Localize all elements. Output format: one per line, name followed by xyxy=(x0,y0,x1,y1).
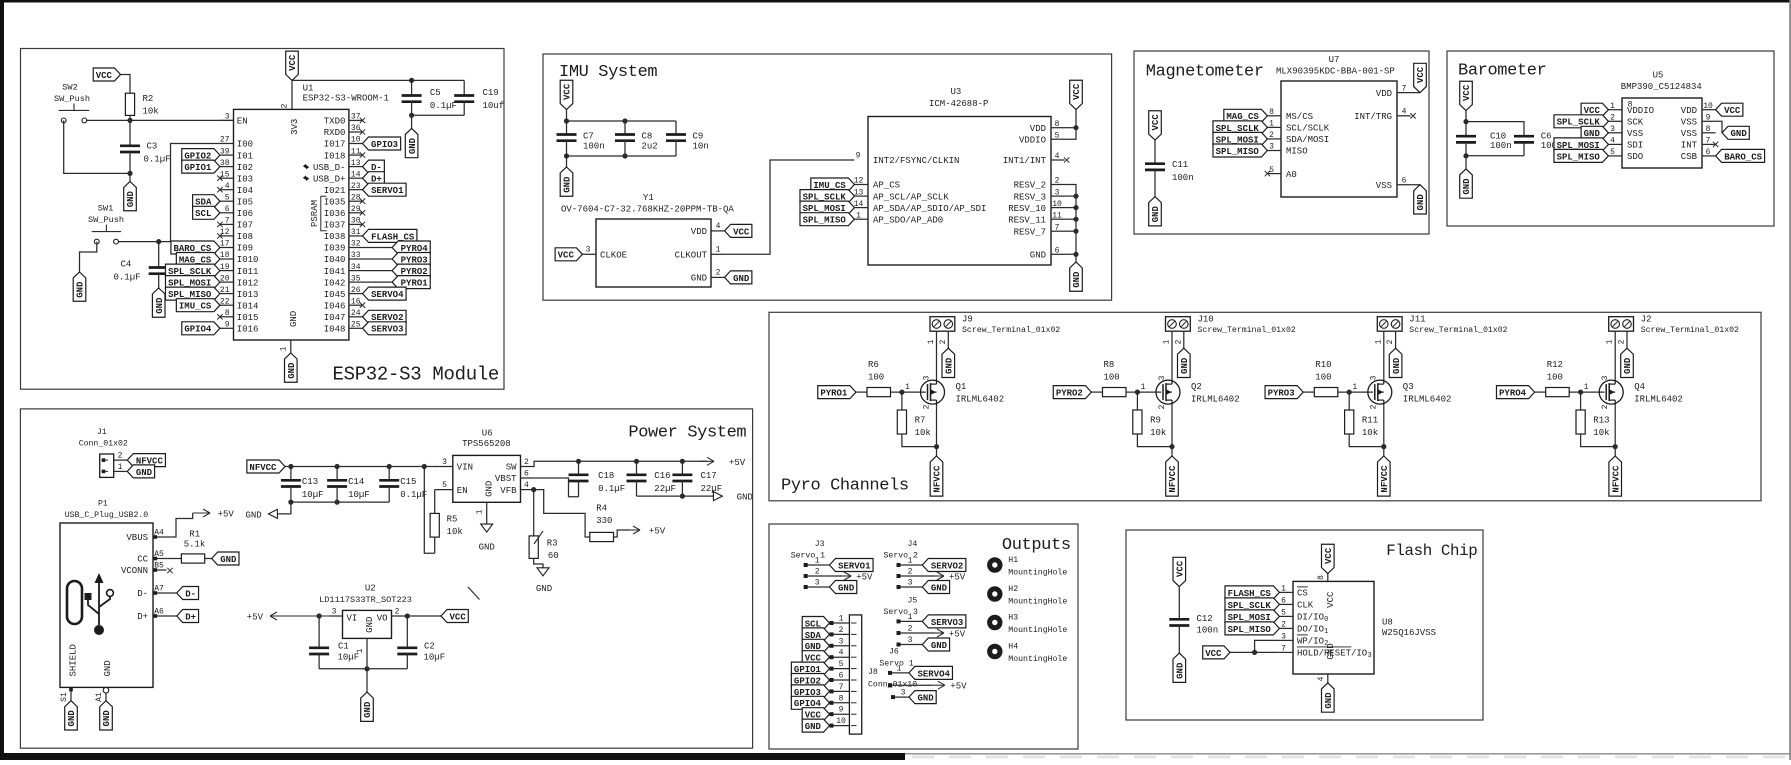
svg-text:16: 16 xyxy=(351,297,361,306)
wire R13 to source xyxy=(1581,434,1616,447)
svg-text:1: 1 xyxy=(356,648,365,653)
svg-text:C12: C12 xyxy=(1197,614,1213,624)
power flag VCC above U8 xyxy=(1322,544,1335,573)
svg-text:BMP390_C5124834: BMP390_C5124834 xyxy=(1621,82,1702,92)
svg-text:U5: U5 xyxy=(1653,71,1664,81)
svg-text:VSS: VSS xyxy=(1627,129,1643,139)
svg-text:INT2/FSYNC/CLKIN: INT2/FSYNC/CLKIN xyxy=(873,156,959,166)
IC U7 body xyxy=(1281,81,1397,197)
wire R11 to source xyxy=(1349,434,1384,447)
svg-text:AP_SDA/AP_SDIO/AP_SDI: AP_SDA/AP_SDIO/AP_SDI xyxy=(873,204,986,214)
global label IMU_CS xyxy=(811,178,855,191)
wire to PYRO3 xyxy=(363,258,393,260)
svg-text:3: 3 xyxy=(922,375,931,380)
U5 pin 3 VSS xyxy=(1608,132,1622,134)
svg-text:26: 26 xyxy=(351,286,361,295)
ground flag below U3 xyxy=(1075,254,1077,262)
U1 pin 30 I037 xyxy=(349,223,363,225)
capacitor C3 xyxy=(129,120,131,145)
svg-text:SCL/SCLK: SCL/SCLK xyxy=(1286,124,1330,134)
global label D+ xyxy=(363,172,385,185)
svg-text:330: 330 xyxy=(596,516,612,526)
svg-text:SDA/MOSI: SDA/MOSI xyxy=(1286,135,1329,145)
svg-text:3: 3 xyxy=(839,637,844,646)
svg-text:C14: C14 xyxy=(348,477,364,487)
svg-text:R10: R10 xyxy=(1315,360,1331,370)
section box: Pyro Channels xyxy=(769,312,1761,501)
svg-text:R6: R6 xyxy=(868,360,879,370)
svg-text:SW1: SW1 xyxy=(98,204,113,214)
svg-text:3: 3 xyxy=(225,113,230,122)
U7 pin 4 INT/TRG xyxy=(1397,115,1411,117)
U2 pin 1 GND xyxy=(366,638,368,668)
svg-text:GND: GND xyxy=(1324,692,1334,709)
J1 pin 1 xyxy=(114,470,128,472)
J4 pin 2 xyxy=(897,575,935,577)
svg-text:10k: 10k xyxy=(1362,428,1378,438)
svg-text:60: 60 xyxy=(548,551,559,561)
J8 pin 4 xyxy=(830,656,850,658)
svg-text:VCC: VCC xyxy=(1151,114,1161,131)
junction GND bus xyxy=(1073,252,1078,257)
U7 pin 1 SCL/SCLK xyxy=(1267,126,1281,128)
svg-text:2: 2 xyxy=(1158,404,1167,409)
global label GPIO1 (J8 pin 5) xyxy=(791,662,829,675)
ground flag below J11 xyxy=(1389,348,1402,377)
global label SPL_SCLK (U8) xyxy=(1225,598,1279,611)
global label VCC (U5) xyxy=(1581,103,1608,116)
svg-text:2: 2 xyxy=(1174,339,1183,344)
svg-text:I011: I011 xyxy=(237,267,259,277)
svg-text:5: 5 xyxy=(1610,148,1615,157)
wire VCC to VDD and VDDIO xyxy=(1065,110,1076,140)
U1 pin 5 I05 xyxy=(220,200,234,202)
svg-text:CSB: CSB xyxy=(1681,152,1698,162)
wire SW1 left to ground xyxy=(80,242,97,272)
svg-text:GND: GND xyxy=(67,710,77,727)
Y1 pin 3 CLKOE xyxy=(582,253,596,255)
wire cap top rail xyxy=(567,120,677,122)
global label SPL_SCLK xyxy=(1213,121,1267,134)
svg-text:3: 3 xyxy=(1055,188,1060,197)
power flag VCC at U5 VDD xyxy=(1716,103,1743,116)
svg-text:I035: I035 xyxy=(324,197,346,207)
ground flag below J9 xyxy=(942,348,955,377)
junction gate/R7 xyxy=(899,390,904,395)
power flag VCC at R2 xyxy=(93,68,120,81)
power flag NFVCC (Q3) xyxy=(1378,456,1391,496)
wire WP to HOLD net xyxy=(1255,640,1280,652)
svg-text:6: 6 xyxy=(524,470,529,479)
connector P1 body xyxy=(60,523,153,687)
U1 pin 22 I014 xyxy=(220,304,234,306)
terminal J9 pin 2 wire to GND xyxy=(947,331,949,348)
svg-text:3: 3 xyxy=(815,579,820,588)
svg-text:4: 4 xyxy=(1055,152,1060,161)
terminal J10 pin 1 wire to Q2 drain xyxy=(1171,331,1173,378)
svg-text:22µF: 22µF xyxy=(654,484,676,494)
ground flag below U2 xyxy=(366,669,368,692)
wire C1/C2 ground rail xyxy=(319,668,407,670)
svg-text:U8: U8 xyxy=(1382,617,1393,627)
U1 pin 3 EN xyxy=(220,119,234,121)
svg-text:100: 100 xyxy=(1315,373,1331,383)
svg-text:PYRO3: PYRO3 xyxy=(1268,389,1295,399)
svg-text:GND: GND xyxy=(563,176,573,193)
svg-text:GND: GND xyxy=(1151,206,1161,223)
svg-text:I038: I038 xyxy=(324,232,346,242)
power arrow +5V (buck output) xyxy=(700,460,714,462)
terminal J2 pin 1 wire to Q4 drain xyxy=(1614,331,1616,378)
global label IMU_CS xyxy=(176,299,220,312)
power flag VCC at Y1 VDD xyxy=(725,224,752,237)
page border right xyxy=(1789,0,1791,760)
svg-text:15: 15 xyxy=(220,170,230,179)
svg-text:0.1µF: 0.1µF xyxy=(598,484,625,494)
svg-text:MLX90395KDC-BBA-001-SP: MLX90395KDC-BBA-001-SP xyxy=(1276,67,1395,77)
svg-text:GND: GND xyxy=(363,701,373,718)
wire PYRO3 to R10 xyxy=(1303,391,1314,393)
svg-text:22µF: 22µF xyxy=(701,484,723,494)
U1 pin 9 I016 xyxy=(220,327,234,329)
svg-text:I013: I013 xyxy=(237,290,259,300)
svg-text:+5V: +5V xyxy=(856,573,873,583)
ground symbol below U6 xyxy=(481,524,493,532)
stray diagonal mark xyxy=(468,587,480,600)
svg-text:IRLML6402: IRLML6402 xyxy=(1191,394,1240,404)
svg-text:10µF: 10µF xyxy=(348,490,370,500)
svg-text:H4: H4 xyxy=(1008,643,1018,652)
global label SPL_SCLK xyxy=(800,190,854,203)
svg-text:VDD: VDD xyxy=(691,227,707,237)
wire SW to +5V rail xyxy=(521,461,708,466)
svg-text:3: 3 xyxy=(1601,375,1610,380)
svg-text:RESV_7: RESV_7 xyxy=(1014,227,1046,237)
U8 pin 5 DI/IO xyxy=(1279,615,1293,617)
svg-text:LD1117S33TR_SOT223: LD1117S33TR_SOT223 xyxy=(319,595,412,605)
svg-text:9: 9 xyxy=(225,321,230,330)
svg-text:+5V: +5V xyxy=(218,510,235,520)
U1 pin 23 I021 xyxy=(349,189,363,191)
section box: Barometer xyxy=(1447,51,1774,226)
junction RESV bus xyxy=(1073,194,1078,199)
wire RESV to bus xyxy=(1065,195,1076,197)
wire PYRO2 to R8 xyxy=(1091,391,1102,393)
svg-text:VCC: VCC xyxy=(733,227,750,237)
global label SDA xyxy=(193,195,220,208)
svg-text:INT/TRG: INT/TRG xyxy=(1354,112,1392,122)
no-connect X on INT/TRG xyxy=(1410,113,1415,118)
svg-text:C7: C7 xyxy=(583,131,594,141)
U8 pin 4 GND bottom xyxy=(1327,674,1329,683)
wire Q4 source down xyxy=(1614,406,1616,456)
svg-text:RESV_10: RESV_10 xyxy=(1008,204,1046,214)
wire to PYRO2 xyxy=(363,270,393,272)
svg-text:I021: I021 xyxy=(324,186,346,196)
junction at C5 bottom xyxy=(409,113,414,118)
svg-text:GND: GND xyxy=(408,137,418,154)
capacitor C2 xyxy=(406,616,408,648)
svg-text:1: 1 xyxy=(1610,102,1615,111)
svg-text:R13: R13 xyxy=(1593,416,1609,426)
terminal J2 pin 2 wire to GND xyxy=(1626,331,1628,348)
screw terminal J10 xyxy=(1166,317,1191,332)
global label VCC (J8 pin 9) xyxy=(802,708,829,721)
wire to PYRO1 xyxy=(363,281,393,283)
svg-text:GND: GND xyxy=(76,281,86,298)
U1 pin 16 I046 xyxy=(349,304,363,306)
junction gate/R11 xyxy=(1347,390,1352,395)
J3 pin 1 xyxy=(804,564,830,566)
resistor R9 xyxy=(1136,392,1138,410)
svg-text:SPL_MISO: SPL_MISO xyxy=(803,216,847,226)
svg-text:33: 33 xyxy=(351,251,361,260)
section box: Magnetometer xyxy=(1134,51,1429,234)
svg-text:W25Q16JVSS: W25Q16JVSS xyxy=(1382,628,1436,638)
svg-text:VDDIO: VDDIO xyxy=(1627,106,1654,116)
svg-text:37: 37 xyxy=(351,113,361,122)
junction U2 GND xyxy=(364,666,369,671)
junction at VDD xyxy=(1073,125,1078,130)
svg-text:GND: GND xyxy=(917,694,934,704)
ground flag below C4 xyxy=(152,288,165,317)
svg-text:100: 100 xyxy=(1104,373,1120,383)
svg-text:4: 4 xyxy=(716,222,721,231)
svg-text:4: 4 xyxy=(839,649,844,658)
svg-text:2: 2 xyxy=(118,452,123,461)
svg-text:14: 14 xyxy=(351,170,361,179)
svg-text:1: 1 xyxy=(856,211,861,220)
svg-text:IRLML6402: IRLML6402 xyxy=(1403,394,1452,404)
resistor R3 xyxy=(533,490,535,536)
J8 pin 3 xyxy=(830,645,850,647)
screw terminal J11 xyxy=(1377,317,1402,332)
U7 pin 6 VSS xyxy=(1397,184,1420,186)
P1 pin B5 VCONN xyxy=(153,569,167,571)
svg-text:1: 1 xyxy=(897,664,902,673)
power arrow +5V (J5) xyxy=(933,632,944,634)
P1 pin A5 CC xyxy=(153,558,167,560)
U3 pin 6 GND xyxy=(1051,253,1065,255)
power arrow +5V (U2 input) xyxy=(270,615,329,617)
global label SERVO2 xyxy=(363,310,407,323)
capacitor C12 xyxy=(1178,587,1180,620)
svg-text:5: 5 xyxy=(225,193,230,202)
svg-text:2: 2 xyxy=(1269,131,1274,140)
no-connect X on INT1/INT xyxy=(1064,157,1069,162)
wire RESV bus xyxy=(1065,185,1076,255)
capacitor C14 xyxy=(336,467,338,481)
svg-text:Q3: Q3 xyxy=(1403,382,1414,392)
no-connect X on U5 INT xyxy=(1713,142,1718,147)
U8 pin 6 CLK xyxy=(1279,603,1293,605)
J1 pin 2 xyxy=(114,459,128,461)
wire VFB to R4 xyxy=(534,490,590,537)
IC U1 body xyxy=(234,109,349,340)
bottom ghost ticks xyxy=(912,756,934,759)
ground symbol below R3 xyxy=(537,568,549,576)
J3 pin 2 xyxy=(804,575,842,577)
U1 pin 14 USB_D+ xyxy=(349,177,363,179)
IC Y1 body xyxy=(596,219,711,287)
U1 pin 35 I042 xyxy=(349,281,363,283)
global label PYRO3 xyxy=(1265,386,1303,399)
svg-text:USB_D-: USB_D- xyxy=(313,163,345,173)
wire VCC rail to C5/C19 xyxy=(292,79,464,81)
global label PYRO1 xyxy=(818,386,856,399)
junction source/R9 xyxy=(1169,444,1174,449)
global label SERVO1 xyxy=(363,183,407,196)
svg-text:3: 3 xyxy=(908,579,913,588)
ground flag below J2 xyxy=(1621,348,1634,377)
svg-text:I018: I018 xyxy=(324,151,346,161)
capacitor C18 (bootstrap) xyxy=(578,461,580,475)
terminal J11 pin 2 wire to GND xyxy=(1395,331,1397,348)
svg-text:D+: D+ xyxy=(185,612,196,622)
capacitor C4 xyxy=(158,242,160,268)
svg-text:+5V: +5V xyxy=(950,682,967,692)
svg-text:R3: R3 xyxy=(547,539,558,549)
global label MAG_CS xyxy=(1224,109,1268,122)
svg-text:VFB: VFB xyxy=(500,486,517,496)
wire Q1 source down xyxy=(936,406,938,456)
svg-text:6: 6 xyxy=(1281,597,1286,606)
svg-text:I037: I037 xyxy=(324,221,346,231)
stray diagonal at R3 xyxy=(534,531,543,544)
svg-text:VDD: VDD xyxy=(1376,89,1392,99)
svg-text:4: 4 xyxy=(1317,676,1326,681)
wire C10/C6 bottom rail xyxy=(1466,155,1524,157)
svg-text:SERVO3: SERVO3 xyxy=(371,325,403,335)
wire VBST to C18 bottom xyxy=(521,478,579,497)
power flag GND (J6) xyxy=(909,691,936,704)
svg-text:5: 5 xyxy=(839,660,844,669)
svg-text:H3: H3 xyxy=(1008,614,1018,623)
U3 pin 7 RESV_7 xyxy=(1051,230,1065,232)
svg-text:5: 5 xyxy=(1055,131,1060,140)
wire I00 net xyxy=(118,144,219,242)
power flag GND at U5 VSS xyxy=(1722,126,1749,139)
svg-text:GND: GND xyxy=(838,583,855,593)
svg-text:10k: 10k xyxy=(143,107,159,117)
svg-text:C11: C11 xyxy=(1172,160,1188,170)
svg-text:VCC: VCC xyxy=(558,251,575,261)
svg-text:SPL_MISO: SPL_MISO xyxy=(1228,625,1272,635)
IC U6 body xyxy=(453,455,521,502)
USB trident glyph xyxy=(94,625,104,635)
global label GPIO2 xyxy=(182,149,220,162)
svg-text:C4: C4 xyxy=(121,260,132,270)
svg-text:A1: A1 xyxy=(95,692,104,702)
svg-text:D-: D- xyxy=(185,589,196,599)
wire cap bottom rail xyxy=(567,155,677,157)
svg-text:32: 32 xyxy=(351,240,361,249)
U5 pin 7 INT xyxy=(1702,143,1716,145)
svg-text:13: 13 xyxy=(351,159,361,168)
svg-text:J5: J5 xyxy=(908,596,918,605)
svg-text:Flash Chip: Flash Chip xyxy=(1386,542,1477,560)
global label SERVO4 xyxy=(909,666,953,679)
J8 pin 10 xyxy=(830,725,850,727)
svg-text:0.1µF: 0.1µF xyxy=(144,154,171,164)
svg-text:USB_C_Plug_USB2.0: USB_C_Plug_USB2.0 xyxy=(65,510,149,520)
svg-text:1: 1 xyxy=(905,383,910,392)
svg-text:INT: INT xyxy=(1681,141,1698,151)
svg-text:R5: R5 xyxy=(447,515,458,525)
svg-text:100n: 100n xyxy=(1490,141,1512,151)
resistor R4 xyxy=(590,532,614,541)
U1 pin 13 USB_D- xyxy=(349,166,363,168)
U7 pin 2 SDA/MOSI xyxy=(1267,138,1281,140)
svg-text:I048: I048 xyxy=(324,325,346,335)
IC U8 body xyxy=(1293,581,1374,674)
svg-text:10n: 10n xyxy=(693,141,709,151)
svg-text:1: 1 xyxy=(908,557,913,566)
svg-text:I06: I06 xyxy=(237,209,253,219)
svg-text:3: 3 xyxy=(1158,375,1167,380)
wire R12 to gate xyxy=(1569,391,1604,393)
global label D+ xyxy=(177,610,199,623)
svg-text:100n: 100n xyxy=(583,141,605,151)
U7 pin 5 A0 xyxy=(1267,173,1281,175)
svg-text:GND: GND xyxy=(931,583,948,593)
svg-text:Q4: Q4 xyxy=(1634,382,1645,392)
wire C5/C19 bottom rail xyxy=(412,114,465,116)
J4 pin 3 xyxy=(897,586,923,588)
wire to PYRO4 xyxy=(363,247,393,249)
svg-text:I04: I04 xyxy=(237,186,253,196)
ground flag below U1 xyxy=(285,353,298,382)
wire R10 to gate xyxy=(1338,391,1373,393)
global label BARO_CS xyxy=(1716,149,1765,162)
U5 pin 9 VSS xyxy=(1702,120,1716,122)
power flag NFVCC (Q1) xyxy=(930,456,943,496)
svg-text:6: 6 xyxy=(1402,176,1407,185)
svg-text:RESV_3: RESV_3 xyxy=(1014,192,1046,202)
svg-text:GND: GND xyxy=(1731,129,1748,139)
svg-text:J6: J6 xyxy=(889,648,899,657)
svg-text:GND: GND xyxy=(737,493,753,503)
svg-text:GND: GND xyxy=(733,274,750,284)
svg-text:2: 2 xyxy=(1386,339,1395,344)
section box: Outputs xyxy=(769,524,1078,749)
svg-text:IRLML6402: IRLML6402 xyxy=(956,394,1005,404)
svg-text:Servo 3: Servo 3 xyxy=(884,608,918,617)
svg-text:18: 18 xyxy=(220,251,230,260)
svg-text:R2: R2 xyxy=(143,94,154,104)
J8 pin 7 xyxy=(830,690,850,692)
capacitor C8 xyxy=(624,121,626,135)
resistor R2 xyxy=(125,93,134,115)
svg-text:Pyro Channels: Pyro Channels xyxy=(781,477,909,496)
U7 pin 8 MS/CS xyxy=(1267,115,1281,117)
capacitor C16 xyxy=(636,461,638,475)
transistor Q3 xyxy=(1368,380,1392,404)
svg-text:30: 30 xyxy=(351,217,361,226)
page border bottom xyxy=(0,753,905,760)
page border top xyxy=(0,0,1791,3)
svg-text:8: 8 xyxy=(225,309,230,318)
transistor Q1 xyxy=(921,380,945,404)
J6 pin 1 xyxy=(888,672,909,674)
svg-text:VDDIO: VDDIO xyxy=(1019,135,1046,145)
power flag VCC at U7 VDD xyxy=(1414,63,1427,92)
svg-text:19: 19 xyxy=(220,263,230,272)
svg-text:+5V: +5V xyxy=(949,630,966,640)
U5 pin 1 VDDIO xyxy=(1608,109,1622,111)
junction C1 xyxy=(317,613,322,618)
global label GPIO3 (J8 pin 7) xyxy=(791,685,829,698)
